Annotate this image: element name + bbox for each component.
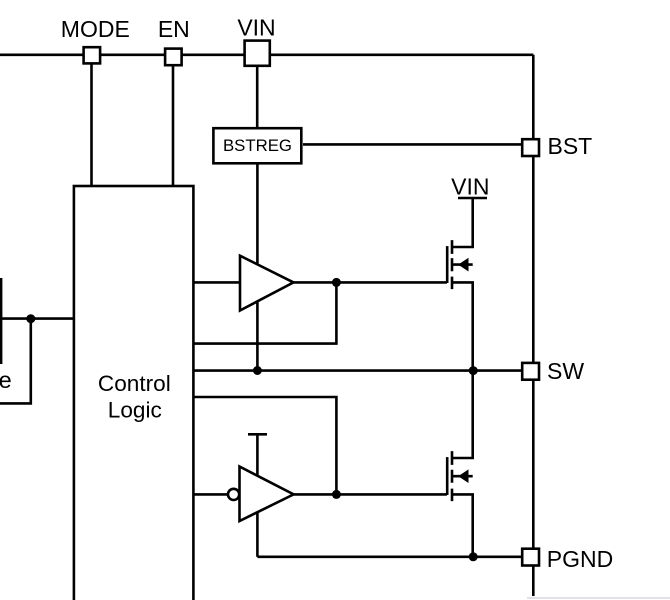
wire MODE pin to Control Logic — [90, 55, 93, 186]
wire high-side driver input — [194, 281, 240, 284]
node junction dot U1 output — [332, 278, 341, 287]
wire right-side vertical rail down to below PGND — [532, 55, 535, 596]
inverting bubble on U2 input — [228, 489, 239, 500]
svg-text:EN: EN — [158, 16, 190, 42]
wire low-side gate feedback from Control Logic — [194, 397, 337, 494]
op-amp U1 high-side gate driver — [240, 256, 294, 311]
wire branch down from node A to left edge — [0, 319, 31, 404]
svg-text:BST: BST — [548, 133, 593, 159]
wire low-side driver supply T-bar — [248, 434, 267, 510]
svg-text:VIN: VIN — [237, 15, 275, 41]
pin PGND — [522, 549, 539, 566]
wire high-side gate feedback to Control Logic — [194, 282, 337, 343]
wire VIN pin down to BSTREG — [256, 55, 259, 127]
wire EN pin to Control Logic — [172, 55, 175, 186]
wire SW sense line from Control Logic to SW pin — [194, 369, 522, 372]
pin BST — [522, 139, 539, 156]
wire left comparator line into Control Logic — [0, 317, 75, 320]
svg-text:Control: Control — [98, 371, 171, 396]
decorative faint page rule bottom right — [527, 597, 670, 599]
op-amp U2 low-side gate driver — [240, 467, 294, 522]
wire PGND line to PGND pin — [257, 555, 522, 558]
wire BSTREG output to BST pin — [303, 143, 522, 146]
block Control Logic — [74, 186, 193, 600]
svg-text:SW: SW — [547, 358, 584, 384]
block BSTREG — [213, 128, 301, 163]
transistor Q1 high-side NMOS — [447, 199, 473, 371]
svg-text:BSTREG: BSTREG — [223, 136, 292, 155]
node junction dot Q2 source on PGND line — [469, 552, 478, 561]
wire BSTREG bottom down through high-side driver to SW node — [256, 165, 259, 371]
pin MODE — [84, 47, 101, 63]
wire high-side driver output to high-side gate — [294, 281, 447, 284]
transistor Q2 low-side NMOS — [447, 371, 473, 557]
node junction dot SW / Q1 source / Q2 drain — [469, 366, 478, 375]
wire top supply bus from left edge through MODE/EN/VIN to right side — [0, 53, 533, 56]
wire low-side driver input — [194, 493, 228, 496]
node junction dot BSTREG line on SW line — [253, 366, 262, 375]
wire low-side driver output to low-side gate — [294, 493, 447, 496]
svg-text:MODE: MODE — [61, 16, 130, 42]
pin SW — [522, 363, 539, 380]
pin EN — [165, 49, 182, 66]
svg-text:Logic: Logic — [108, 398, 162, 423]
pin VIN — [245, 41, 270, 66]
node A junction dot on left comparator line — [26, 314, 35, 323]
wire low-side driver return down to PGND line — [256, 494, 259, 556]
svg-text:PGND: PGND — [547, 546, 613, 572]
svg-text:VIN: VIN — [451, 174, 489, 200]
svg-text:e: e — [0, 367, 12, 393]
node junction dot U2 output — [332, 490, 341, 499]
wire partial vertical at left edge — [0, 278, 2, 364]
node VIN bar above Q1 — [458, 197, 487, 200]
